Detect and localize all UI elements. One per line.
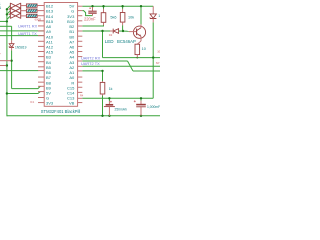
wire BT1 top stub <box>108 98 110 101</box>
svg-text:D2: D2 <box>109 33 113 37</box>
wire 10k top stub <box>122 6 124 9</box>
svg-text:1k: 1k <box>109 87 113 91</box>
svg-text:600R: 600R <box>35 17 41 21</box>
junction 220nF top <box>91 5 93 7</box>
IC U1 STM32F401 BlackPill box <box>44 3 77 107</box>
resistor R3 10 <box>137 41 141 44</box>
junction gps pin2 <box>6 64 8 66</box>
wire left edge net 2 <box>0 25 12 27</box>
junction A1 node <box>101 70 103 72</box>
battery BT1 <box>108 101 110 104</box>
svg-text:250mAh: 250mAh <box>115 107 127 111</box>
wire B6 from left <box>0 70 38 72</box>
junction LED 10k <box>122 30 124 32</box>
gps pin stub A <box>0 60 11 62</box>
svg-text:1N: 1N <box>158 14 160 18</box>
U1 pin stubs <box>38 5 44 7</box>
wire A1 vertical <box>102 71 104 81</box>
wire conn diag 3 <box>7 16 10 20</box>
svg-text:UART2 TX: UART2 TX <box>81 61 100 66</box>
svg-text:1,000mF: 1,000mF <box>147 105 160 109</box>
svg-text:SP: SP <box>156 61 160 65</box>
svg-text:10k: 10k <box>128 16 134 20</box>
wire GND bottom rail <box>7 115 160 117</box>
junction emitter rail <box>152 56 154 58</box>
X1 pin 2 stub <box>21 10 27 12</box>
resistor R2 10k <box>122 9 124 13</box>
wire R4 bottom vertical <box>102 95 104 115</box>
wire RX exit right <box>133 70 160 72</box>
gps pin stub B <box>0 65 6 67</box>
wire UART2 RX A3 <box>82 60 127 62</box>
wire left edge net 1 <box>0 20 7 22</box>
junction battery top <box>108 97 110 99</box>
svg-text:1N5819: 1N5819 <box>15 45 26 49</box>
junction bus 1 <box>6 8 8 10</box>
svg-text:VB: VB <box>69 101 75 106</box>
svg-text:IC1: IC1 <box>30 100 35 104</box>
junction cap3 top <box>140 97 142 99</box>
wire 5k6 to B2 <box>82 25 103 26</box>
transistor Q1 <box>133 26 145 38</box>
C2 name mark <box>89 8 91 9</box>
junction collector 5V <box>140 5 142 7</box>
wire C3 top stub <box>140 98 142 101</box>
wire UART1 TX A10 <box>0 35 44 37</box>
wire emitter rail <box>103 57 161 59</box>
connector X1 screw terminal <box>9 3 11 19</box>
svg-text:TX1: TX1 <box>0 1 1 5</box>
wire node X vertical <box>102 31 104 58</box>
wire B1 to LED <box>82 30 112 32</box>
svg-text:10: 10 <box>157 49 160 53</box>
svg-text:BC546AP: BC546AP <box>117 39 136 44</box>
resistor R1 5k6 <box>103 9 105 13</box>
svg-text:UART2 RX: UART2 RX <box>81 55 101 60</box>
junction node X <box>101 30 103 32</box>
svg-text:UART1 TX: UART1 TX <box>18 31 37 36</box>
svg-text:LED: LED <box>105 39 115 44</box>
svg-text:STM32F401 BlackPill: STM32F401 BlackPill <box>41 109 81 115</box>
svg-text:UART1 RX: UART1 RX <box>18 24 38 29</box>
svg-text:3V3: 3V3 <box>46 101 54 106</box>
wire chain to B9 <box>12 86 41 88</box>
wire C2 top stub <box>92 6 94 7</box>
wire D1 bottom chain <box>11 50 13 88</box>
junction bus 2 <box>6 13 8 15</box>
svg-text:220nF: 220nF <box>84 16 96 21</box>
wire UART2 TX A2 <box>82 65 160 67</box>
diode D3 1N5819 <box>152 6 154 14</box>
ferrite beads L1 L2 L3 <box>26 4 37 7</box>
junction cap3 gnd <box>140 115 142 117</box>
junction 5k6 top <box>102 5 104 7</box>
wire C13 battery rail <box>82 97 153 99</box>
svg-text:5k6: 5k6 <box>110 16 116 20</box>
junction bus 3 <box>6 20 8 22</box>
junction bus 5V <box>6 92 8 94</box>
wire right vertical <box>152 22 154 98</box>
svg-text:10: 10 <box>142 47 146 51</box>
wire conn diag 1 <box>7 6 10 10</box>
junction R3 bottom <box>136 57 138 59</box>
X1 pin 3 stub <box>21 15 27 17</box>
svg-text:R4: R4 <box>80 94 84 97</box>
junction 10k top <box>121 5 123 7</box>
diode D1 1N5819 <box>11 40 13 43</box>
wire 10k to node <box>122 25 124 31</box>
wire UART1 RX A9 <box>0 30 44 32</box>
junction gps pin1 <box>10 60 12 62</box>
wire A1 to R4 <box>82 70 102 72</box>
junction battery gnd <box>108 115 110 117</box>
wire left bus vertical <box>6 9 8 116</box>
wire bus to 5V pin <box>7 92 40 94</box>
svg-text:RX1: RX1 <box>0 6 1 10</box>
X1 pin 1 stub <box>21 5 27 7</box>
wire 5V rail <box>82 5 153 7</box>
capacitor C2 220nF <box>92 7 94 11</box>
wire 5k6 top stub <box>103 6 105 9</box>
wire GND jog to C2 <box>82 11 92 16</box>
wire conn diag 2 <box>7 11 10 15</box>
junction R4 gnd <box>101 115 103 117</box>
wire RX diagonal jog <box>128 61 134 71</box>
wire D1 top vertical <box>11 26 13 40</box>
svg-text:5V: 5V <box>0 52 1 56</box>
capacitor C3 1000mF <box>140 101 142 105</box>
resistor R4 <box>102 81 104 82</box>
wire collector vertical <box>140 6 142 24</box>
wire LED to base <box>119 30 129 32</box>
LED D2 <box>112 29 114 34</box>
